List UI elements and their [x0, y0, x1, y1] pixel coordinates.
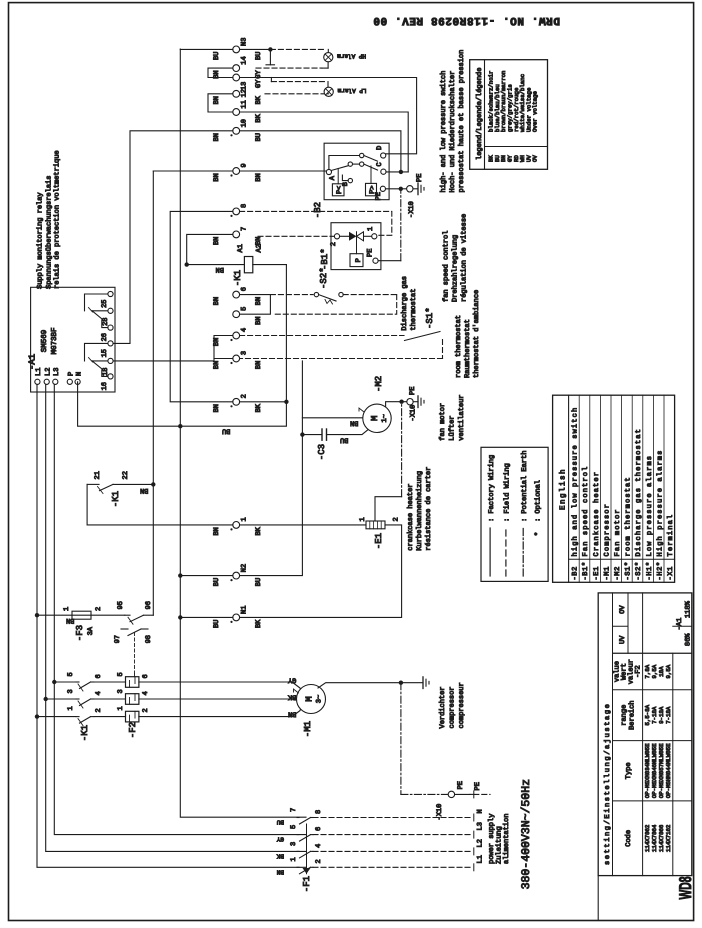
node tap L3 to K1 pole [52, 680, 56, 684]
controller B1 box [331, 223, 381, 270]
svg-text:DRW. NO. -118R0298 REV. 00: DRW. NO. -118R0298 REV. 00 [373, 14, 560, 26]
svg-text:4: 4 [142, 691, 150, 695]
wire terminal 1 to E1 [240, 524, 366, 526]
svg-text:11: 11 [241, 100, 249, 108]
svg-text:A2: A2 [256, 244, 264, 252]
terminal B2 A [326, 169, 331, 174]
wire bus drop to K1 coil return and terminal 2 [180, 265, 286, 427]
svg-text:BN: BN [66, 616, 74, 624]
svg-text:4: 4 [95, 691, 103, 695]
svg-text:380-400V3N~/50Hz: 380-400V3N~/50Hz [520, 779, 533, 889]
svg-text:OP-MSXM857MLW85E: OP-MSXM857MLW85E [658, 743, 665, 798]
svg-text:1: 1 [367, 227, 375, 231]
legend table header rule [484, 60, 486, 170]
coil K1 A1-A2 [187, 264, 245, 266]
wire terminal 4 dashed to S1 [240, 335, 404, 337]
svg-text:-F1: -F1 [302, 876, 312, 892]
wire A1 N to bus [78, 382, 181, 426]
svg-text:9,5A: 9,5A [665, 664, 672, 678]
svg-text:Type: Type [625, 762, 633, 779]
svg-text:résistance de carter: résistance de carter [424, 467, 433, 551]
motor M2 fan [363, 404, 391, 432]
sensor P-low box B2 [332, 184, 344, 196]
terminal A1 L1 [35, 379, 40, 384]
wire terminal 9 to B2 A [240, 170, 326, 172]
svg-text:-E1: -E1 [593, 566, 601, 580]
motor M2 thermal arrow [359, 408, 364, 412]
svg-text:P<: P< [336, 186, 344, 194]
wire N3 down solid [240, 48, 271, 50]
svg-text:BN: BN [276, 869, 284, 876]
svg-text:BU: BU [276, 819, 284, 826]
wire PE dash-dot B1 to B2 X10 [400, 189, 402, 261]
svg-text:BN: BN [255, 173, 263, 181]
wire E1 feed corner to terminal 1 [87, 484, 233, 525]
svg-text:compresseur: compresseur [458, 682, 466, 728]
svg-text:13: 13 [241, 82, 249, 90]
svg-text:Verdichter: Verdichter [438, 686, 447, 728]
svg-text:P: P [68, 372, 76, 376]
svg-text:room thermostat: room thermostat [454, 315, 463, 378]
svg-text:régulation de vitesse: régulation de vitesse [460, 214, 469, 302]
svg-text:BU: BU [213, 52, 221, 60]
wire terminal 8 dashed to B1 terminal 1 [240, 211, 392, 235]
svg-text:2: 2 [393, 517, 401, 521]
svg-text:14: 14 [241, 56, 249, 64]
svg-text:-B1*: -B1* [581, 561, 590, 580]
legend code column rule [485, 146, 548, 148]
svg-text:Bereich: Bereich [628, 700, 637, 729]
svg-text:BN: BN [255, 297, 263, 305]
svg-text:95: 95 [117, 601, 125, 609]
legend colour table box [470, 60, 548, 170]
svg-text:Terminal: Terminal [666, 514, 675, 557]
wiring legend field [505, 528, 507, 576]
svg-text:BU: BU [213, 578, 221, 586]
svg-text:fan speed control: fan speed control [442, 231, 451, 302]
svg-text:3~: 3~ [316, 695, 324, 703]
terminal B1 2 [334, 234, 339, 239]
svg-text:-K1: -K1 [111, 491, 121, 507]
svg-text:18A: 18A [658, 666, 665, 677]
ground symbol M1 [422, 677, 424, 689]
svg-text:PE: PE [409, 387, 417, 395]
svg-text:PE: PE [474, 782, 482, 790]
overload trip linkage dashed [134, 632, 136, 674]
triac symbol B1 [340, 235, 349, 237]
svg-text:Crankcase heater: Crankcase heater [592, 471, 601, 557]
lamp H1 LP alarm [324, 87, 333, 96]
svg-text:8: 8 [241, 204, 249, 208]
svg-text:-C3: -C3 [317, 444, 327, 460]
svg-text:BN: BN [255, 361, 263, 369]
svg-text:MG73BF: MG73BF [50, 327, 59, 354]
svg-text:114X7162: 114X7162 [665, 824, 672, 852]
svg-text:D: D [376, 146, 384, 150]
svg-text:9,5A: 9,5A [651, 664, 658, 678]
svg-text:-F2: -F2 [635, 665, 643, 678]
svg-text:pressostat haute et basse pres: pressostat haute et basse pression [457, 50, 466, 193]
wire F3 to 95 contact [91, 614, 125, 616]
thermostat S2 contact with thermal element [314, 292, 318, 296]
heater E1 [366, 521, 385, 529]
wire terminal 10 to C join [240, 131, 401, 172]
fuse F3 3A [72, 611, 91, 619]
svg-text:: Field Wiring: : Field Wiring [503, 463, 512, 522]
node N3 branch [268, 47, 272, 51]
svg-text:crankcase heater: crankcase heater [406, 483, 415, 550]
svg-text:Fan motor: Fan motor [614, 508, 622, 556]
svg-text:-M2: -M2 [614, 566, 622, 580]
svg-text:5,5-8A: 5,5-8A [644, 704, 651, 725]
wire C3 into M2 [344, 428, 370, 435]
switch F1 linkage [306, 824, 308, 874]
node X10 M2 [399, 400, 403, 404]
svg-text:Discharge gas thermostat: Discharge gas thermostat [634, 428, 643, 556]
wire 96 to terminal 9 feed line [152, 171, 154, 615]
svg-text:5: 5 [290, 825, 298, 829]
overload contact 95-96 [143, 614, 153, 616]
svg-text:L2: L2 [477, 839, 485, 847]
wire M2 PE to X10 [386, 402, 402, 407]
wires F1 supply dashed [313, 866, 473, 868]
wire terminal 6 dashed to S2 [270, 294, 313, 296]
svg-text:6: 6 [241, 287, 249, 291]
svg-text:Compressor: Compressor [603, 503, 611, 557]
node C3 branch [300, 432, 304, 436]
svg-text:: Factory Wiring: : Factory Wiring [487, 455, 496, 522]
svg-text:-S1*: -S1* [624, 561, 633, 580]
B2 contact circle upper [360, 153, 364, 157]
node bus N2 [178, 573, 182, 577]
svg-text:1: 1 [290, 857, 298, 861]
svg-text:L1: L1 [477, 855, 485, 863]
svg-text:-A1: -A1 [676, 618, 684, 631]
svg-text:18: 18 [102, 368, 110, 376]
svg-text:high- and low pressure switch: high- and low pressure switch [439, 71, 448, 193]
svg-text:range: range [621, 705, 629, 726]
svg-text:86%: 86% [685, 633, 693, 646]
svg-text:3: 3 [67, 689, 75, 693]
svg-text:-M2: -M2 [374, 376, 384, 392]
svg-text:BU: BU [213, 620, 221, 628]
settings table mid A1 rule [627, 593, 629, 653]
svg-text:Spannungsüberwachungsrelais: Spannungsüberwachungsrelais [44, 176, 53, 289]
wire terminal N3 to bus [180, 48, 233, 50]
svg-text:5: 5 [117, 672, 125, 676]
branch N3 to 14 line [269, 49, 271, 64]
terminal B1 1 [372, 234, 377, 239]
svg-text:OP-MSHM844MLW85E: OP-MSHM844MLW85E [665, 743, 672, 798]
terminal B2 PE [380, 186, 385, 191]
wire E1 to N1 terminal [240, 525, 402, 618]
svg-text:2: 2 [142, 708, 150, 712]
wire terminal 3 to A1 terminal 18 [113, 359, 233, 361]
svg-text:BK: BK [255, 113, 263, 122]
svg-text:114X7866: 114X7866 [658, 824, 665, 852]
svg-text:118%: 118% [685, 600, 693, 618]
svg-text:BN: BN [350, 419, 358, 427]
wires K1 to F2 [94, 716, 126, 718]
svg-text:-X1: -X1 [667, 566, 675, 580]
settings table top extension to frame [597, 876, 599, 921]
overload F2 trip linkage dashed [134, 674, 136, 677]
svg-text:OP-MSXM846NLW85E: OP-MSXM846NLW85E [651, 743, 658, 798]
svg-text:Low pressure alarms: Low pressure alarms [645, 455, 654, 557]
svg-text:P: P [355, 258, 363, 262]
svg-text:L3: L3 [53, 368, 61, 376]
svg-text:9-13A: 9-13A [658, 706, 665, 724]
svg-text:8: 8 [315, 810, 323, 814]
svg-text:BU: BU [255, 578, 263, 586]
svg-text:A1: A1 [237, 244, 245, 252]
wire terminal 1 stub [232, 524, 234, 526]
svg-text:-M1: -M1 [603, 566, 611, 580]
wire L1 BN top [37, 382, 306, 868]
wiring legend box [481, 447, 548, 581]
jumper terminals 3-4 [214, 336, 233, 359]
svg-text:compressor: compressor [449, 686, 457, 728]
pressure sensor P box B1 [350, 254, 363, 267]
svg-text:98: 98 [145, 635, 153, 643]
settings table row rules [612, 593, 614, 876]
svg-text:Discharge gas: Discharge gas [400, 276, 409, 331]
svg-text:High pressure alarms: High pressure alarms [655, 449, 664, 556]
svg-text:-K1: -K1 [233, 270, 243, 286]
terminal strip X1 terminals [233, 614, 240, 621]
wire terminal 9 stub to feed line [153, 170, 233, 172]
svg-text:16: 16 [101, 382, 109, 390]
svg-text:Drehzahlregelung: Drehzahlregelung [451, 235, 460, 302]
svg-text:15: 15 [101, 349, 109, 357]
node bus N1 [178, 615, 182, 619]
sensor P-high box B2 [366, 183, 377, 195]
svg-text:2: 2 [95, 708, 103, 712]
svg-text:BK: BK [276, 853, 284, 860]
contact K1 21-22 auxiliary [87, 483, 99, 485]
motor M1 compressor [297, 685, 326, 714]
svg-text:OV: OV [619, 605, 627, 614]
terminal A1 N [75, 379, 80, 384]
terminal A1 L2 [44, 379, 49, 384]
svg-text:-S2*: -S2* [634, 561, 643, 580]
wire PE supply dashed [470, 793, 474, 795]
wire terminal 7 to K1 coil [187, 234, 233, 264]
svg-text:26: 26 [101, 333, 109, 341]
supply line ticks [473, 864, 475, 871]
settings table column rules [613, 800, 692, 802]
svg-text:7: 7 [290, 808, 298, 812]
svg-text:2: 2 [95, 607, 103, 611]
svg-text:-M1: -M1 [303, 721, 313, 737]
wire L3 GY top [54, 382, 306, 835]
svg-text:BN: BN [213, 404, 221, 412]
svg-text:BU: BU [255, 133, 263, 141]
wiring legend potential earth [522, 528, 524, 576]
terminal B2 D [381, 153, 386, 158]
svg-text:thermostat d'ambiance: thermostat d'ambiance [472, 290, 481, 378]
svg-text:28: 28 [102, 318, 110, 326]
switch F1 4 poles [297, 866, 299, 868]
wire terminal 2 down to coil return [240, 401, 287, 403]
wire B1 PE down [378, 260, 401, 262]
wire S2 to terminal 5 dashed loop [343, 294, 397, 296]
svg-text:-S1*: -S1* [425, 307, 435, 329]
terminal junction dots small [230, 528, 232, 530]
svg-text:1: 1 [241, 517, 249, 521]
wire E1 PE pigtail [375, 497, 402, 521]
svg-text:Kurbelwannenheizung: Kurbelwannenheizung [415, 471, 424, 551]
svg-text:GY: GY [276, 836, 284, 843]
english table box [553, 395, 675, 582]
svg-text:: Optional: : Optional [534, 480, 543, 522]
svg-text:96: 96 [145, 601, 153, 609]
svg-text:3: 3 [241, 351, 249, 355]
svg-text:BN: BN [216, 265, 224, 273]
svg-text:BU: BU [340, 436, 348, 444]
svg-text:GY: GY [255, 79, 263, 88]
svg-text:BN: BN [213, 237, 221, 245]
svg-text:Lüfter: Lüfter [448, 415, 457, 440]
svg-text:BN: BN [213, 96, 221, 104]
svg-text:3: 3 [117, 689, 125, 693]
svg-text:Raumthermostat: Raumthermostat [463, 319, 472, 378]
svg-text:2: 2 [241, 394, 249, 398]
svg-text:7-18A: 7-18A [665, 706, 672, 724]
svg-text:-A1: -A1 [28, 354, 38, 370]
wire terminal 8 to terminal 2 upper loop [170, 211, 233, 401]
terminal B2 B [348, 178, 352, 182]
jumper terminals 11-12 [208, 94, 233, 112]
svg-text:BK: BK [255, 526, 263, 535]
svg-text:7-18A: 7-18A [651, 706, 658, 724]
svg-text:SM569: SM569 [40, 330, 49, 353]
svg-text:thermostat: thermostat [409, 289, 418, 331]
svg-text:setting/Einstellung/ajustage: setting/Einstellung/ajustage [603, 703, 612, 865]
svg-text:4: 4 [315, 844, 323, 848]
wire M1 PE down [318, 683, 423, 688]
node K1 coil feed [185, 262, 189, 266]
svg-text:BU: BU [222, 427, 230, 435]
node tap L1 to F3 [35, 613, 39, 617]
svg-text:97: 97 [114, 635, 122, 643]
svg-text:GY: GY [287, 676, 296, 684]
svg-text:-F3: -F3 [75, 625, 85, 641]
wire neutral BU bus [180, 49, 306, 817]
wire terminal N2 to bus [180, 575, 233, 577]
B2 wire A to D branch [329, 156, 359, 170]
svg-text:BN: BN [213, 361, 221, 369]
relay A1 contact set 26-28-25 [108, 325, 113, 330]
svg-text:alimentation: alimentation [502, 814, 511, 864]
node M1 PE branch [399, 681, 403, 685]
svg-text:-B2: -B2 [313, 202, 323, 218]
svg-text:N: N [477, 809, 485, 813]
lamp H2 HP alarm [324, 53, 333, 62]
wire terminal 7 dashed to B1 terminal 2 [258, 235, 334, 237]
wires F2 to M1 [139, 716, 292, 718]
svg-text:legend/Legende/légende: legend/Legende/légende [475, 68, 484, 160]
terminal B2 C [381, 169, 386, 174]
svg-text:PE: PE [416, 174, 424, 182]
svg-text:21: 21 [94, 471, 102, 479]
wire S1 to terminal 3 dashed [442, 340, 444, 359]
svg-text:BN: BN [213, 527, 221, 535]
wire 14 dashed to HP lamp [256, 67, 322, 69]
wire M2 feed BN [302, 417, 363, 419]
settings table box [598, 593, 692, 876]
wire M1 PE to X10 dash-dot [400, 683, 402, 795]
svg-text:BU: BU [255, 52, 263, 60]
svg-text:BN: BN [213, 173, 221, 181]
wire B2 PE to X10 [386, 188, 401, 190]
node 10-11 join at C [399, 170, 403, 174]
svg-text:3: 3 [290, 842, 298, 846]
contactor K1 main contacts [76, 716, 79, 718]
terminal X10 B2 PE [401, 188, 407, 190]
svg-text:N1: N1 [241, 606, 249, 614]
svg-text:7: 7 [241, 227, 249, 231]
svg-text:LP Alarm: LP Alarm [337, 87, 366, 94]
wire 12 dashed to LP lamp [265, 93, 327, 95]
svg-text:-F2: -F2 [128, 722, 138, 738]
relay A1 box [31, 287, 115, 392]
svg-text:L3: L3 [477, 822, 485, 830]
svg-text:2: 2 [315, 859, 323, 863]
node X10 B2 [399, 187, 403, 191]
svg-text:English: English [558, 468, 567, 510]
ground symbol X10 M2 [417, 396, 419, 408]
svg-text:UV: UV [619, 635, 627, 644]
svg-text:-X10: -X10 [410, 405, 418, 422]
svg-text:*: * [534, 532, 543, 536]
terminal A1 P [67, 379, 72, 384]
svg-text:7,8A: 7,8A [644, 664, 651, 678]
switch F1 handle arrow [303, 868, 311, 874]
wire 13 branch dashed to LP lamp [270, 78, 272, 82]
pressure switch B2 box [324, 143, 389, 200]
terminal B1 PE [373, 258, 378, 263]
overload contact 97-98 [121, 628, 128, 630]
svg-text:L2: L2 [45, 368, 53, 376]
svg-text:BK: BK [287, 693, 296, 701]
svg-text:6: 6 [315, 827, 323, 831]
svg-text:114X7862: 114X7862 [644, 824, 651, 852]
svg-text:relais de protection voltmetri: relais de protection voltmetrique [53, 150, 62, 289]
svg-text:BN: BN [255, 237, 263, 245]
svg-text:fan motor: fan motor [438, 403, 447, 441]
svg-text:1: 1 [67, 706, 75, 710]
svg-text:OP-MSXM834NLW85E: OP-MSXM834NLW85E [644, 743, 651, 798]
svg-text:114X7864: 114X7864 [651, 824, 658, 852]
node aux contact to line 153 [151, 482, 155, 486]
wire B2 C down [386, 171, 408, 173]
svg-text:M: M [305, 696, 315, 701]
svg-text:Supply monitoring relay: Supply monitoring relay [35, 192, 44, 289]
wiring legend factory [489, 528, 491, 576]
capacitor C3 [302, 434, 322, 436]
svg-text:3A: 3A [87, 626, 95, 635]
english table header [568, 395, 570, 582]
svg-text:ventilateur: ventilateur [457, 394, 466, 440]
svg-text:C: C [376, 162, 384, 166]
svg-text:BK: BK [255, 95, 263, 104]
svg-text:BN: BN [140, 486, 148, 494]
svg-text:6: 6 [95, 674, 103, 678]
svg-text:BN: BN [255, 316, 263, 324]
terminal X10 M2 PE [402, 401, 407, 403]
svg-text:5: 5 [67, 672, 75, 676]
